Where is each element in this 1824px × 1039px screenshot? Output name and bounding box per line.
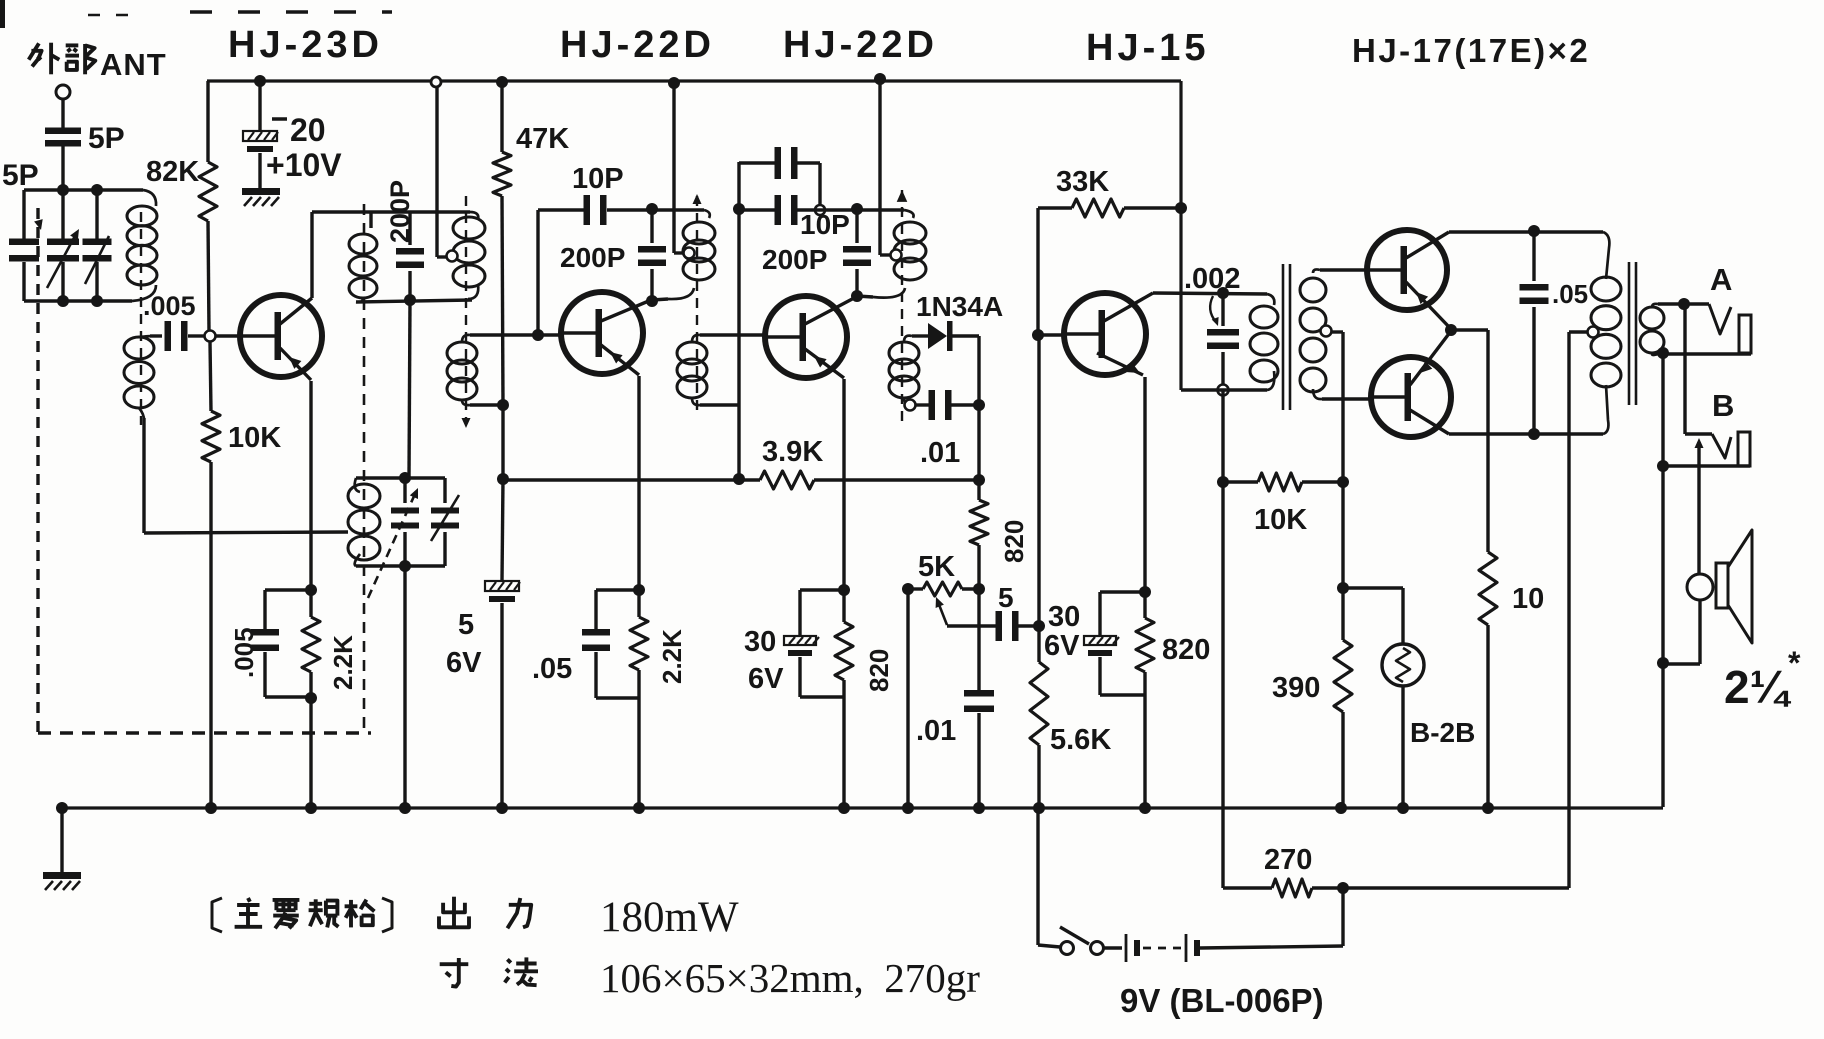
IF1 tap feed [447, 251, 458, 262]
wire IF1 sec bottom [470, 403, 503, 406]
svg-text:30: 30 [1048, 601, 1080, 633]
capacitor 30uF 6V (AF) [1098, 592, 1101, 636]
wire battery to CT [1343, 886, 1569, 889]
battery dashed link [1143, 947, 1181, 950]
driver transformer core [1282, 264, 1285, 410]
node bus 47K [496, 76, 508, 88]
wire to IF2 primary top [652, 208, 704, 211]
output transformer secondary [1640, 307, 1664, 329]
svg-text:6V: 6V [1044, 630, 1080, 662]
node 200P top (Q2) [646, 203, 658, 215]
jack B sleeve [1738, 432, 1750, 466]
wire to diode [912, 334, 928, 337]
svg-text:.05: .05 [532, 653, 572, 685]
wire switch to cell [1104, 946, 1122, 949]
wire IF3 top entry [857, 208, 904, 211]
svg-text:.002: .002 [1184, 263, 1240, 295]
antenna coil primary [127, 206, 157, 226]
capacitor .005 bypass [263, 590, 266, 629]
capacitor .05 bypass [594, 590, 597, 629]
dashed core IF2 [696, 196, 698, 412]
wire sec bottom to Q6 base [1322, 397, 1372, 400]
wire IF1 sec top to Q2 base [470, 333, 561, 336]
node bus electrolytic [254, 75, 266, 87]
wire 270 corner [1221, 885, 1224, 888]
wire RC2 bottom [596, 696, 639, 699]
wire IF2 sec top to Q3 base [700, 333, 765, 336]
node bus x908 [902, 802, 914, 814]
node tank top [399, 472, 411, 484]
node Q1 RC top [305, 584, 317, 596]
svg-text:5P: 5P [88, 122, 125, 155]
svg-text:5: 5 [998, 582, 1014, 613]
stray dashes top [190, 10, 392, 13]
output transformer primary [1591, 277, 1621, 301]
ground (electrolytic) [242, 188, 280, 195]
svg-text:5K: 5K [918, 551, 955, 583]
node jack B branch [1657, 460, 1669, 472]
transistor Q5 (HJ-17 upper) [1367, 230, 1447, 310]
Q6 emitter lead [1410, 331, 1451, 385]
jack A contact [1709, 304, 1731, 334]
transistor Q4 (HJ-15) [1064, 293, 1146, 375]
wire 33K left leg [1036, 208, 1039, 335]
wire gang top [24, 188, 143, 191]
output transformer core [1628, 262, 1631, 405]
wire tank top line [356, 476, 445, 479]
wire Q5 collector line [1449, 230, 1603, 233]
svg-text:820: 820 [999, 520, 1029, 563]
wire RC bottom [265, 695, 311, 698]
capacitor gang C2 (variable) [47, 239, 79, 246]
wire lamp lead [1343, 586, 1403, 589]
wire 82K to base [208, 221, 209, 331]
node AGC start [497, 473, 509, 485]
node 10P junction [532, 329, 544, 341]
node x739 AGC [733, 473, 745, 485]
wire Q2 RC to bus [637, 698, 640, 808]
resistor 270 [1272, 879, 1312, 897]
svg-text:A: A [1710, 262, 1732, 297]
IF2 secondary [677, 342, 707, 364]
wire tank to bus [403, 566, 406, 808]
resistor 390 [1341, 588, 1344, 640]
wire antenna down [61, 99, 64, 128]
wire RC2 top [596, 588, 639, 591]
capacitor 5uF 6V electrolytic [485, 581, 519, 591]
node 5K right [973, 583, 985, 595]
wire collector to IF2 bottom [652, 299, 668, 300]
resistor 10 [1479, 552, 1497, 625]
node bus x62 [56, 802, 68, 814]
dashed core IF3 [901, 190, 903, 424]
spec 出力 [452, 897, 456, 928]
Q5 emitter lead [1406, 282, 1451, 329]
svg-text:HJ-23D: HJ-23D [228, 24, 383, 66]
node jack A [1678, 298, 1690, 310]
svg-text:+10V: +10V [266, 147, 342, 183]
spec 寸法 [440, 962, 469, 966]
node 47K line [497, 399, 509, 411]
wire 820 to AGC node [977, 545, 980, 589]
svg-text:200P: 200P [385, 180, 415, 243]
wire 10ohm riser [1486, 330, 1489, 552]
wire RC4 bottom [1100, 693, 1145, 696]
battery cell 1 [1125, 934, 1128, 962]
svg-text:5: 5 [458, 609, 474, 641]
node bus IF2 feed [668, 77, 680, 89]
wire osc/IF1 bottom line [356, 300, 472, 302]
svg-text:5P: 5P [2, 159, 39, 192]
wire supply to primary bottom [1181, 388, 1267, 391]
svg-text:.005: .005 [229, 627, 259, 678]
node bus x1039 [1033, 802, 1045, 814]
oscillator coil primary winding [349, 234, 377, 254]
node lamp branch [1337, 582, 1349, 594]
wire lamp to bus [1401, 685, 1404, 808]
node 10K left [1217, 476, 1229, 488]
node gang top a [57, 184, 69, 196]
svg-text:6V: 6V [748, 663, 784, 695]
svg-text:33K: 33K [1056, 166, 1109, 198]
svg-text:9V (BL-006P): 9V (BL-006P) [1120, 982, 1324, 1019]
wire 33K right [1124, 206, 1181, 209]
svg-text:2.2K: 2.2K [657, 629, 687, 684]
wire speaker to jack B [1697, 442, 1700, 574]
wire Q1 emitter drop [309, 381, 312, 590]
svg-text:82K: 82K [146, 156, 199, 188]
wire jack A sleeve return [1663, 352, 1751, 355]
svg-text:106×65×32mm, 270gr: 106×65×32mm, 270gr [600, 955, 980, 1001]
node Q4 RC top [1139, 586, 1151, 598]
svg-text:270: 270 [1264, 844, 1312, 876]
jack B contact [1712, 434, 1731, 458]
wire emitter-osc link [144, 532, 348, 533]
node Q2 collector [646, 295, 658, 307]
node gang bottom a [57, 295, 69, 307]
wire RC3 bottom [800, 695, 844, 698]
ground (main) [43, 872, 81, 879]
Q3 emitter lead [805, 349, 844, 378]
wire antenna to gang [61, 146, 64, 190]
IF3 tap feed [891, 250, 902, 261]
node Q3 collector [851, 290, 863, 302]
Q1 emitter lead [280, 348, 311, 380]
svg-text:HJ-22D: HJ-22D [783, 24, 938, 66]
wire neutralizing riser [536, 210, 539, 330]
svg-text:820: 820 [1162, 634, 1210, 666]
node .002 top [1217, 287, 1229, 299]
pilot lamp B-2B [1382, 644, 1424, 686]
wire osc coil entry [369, 212, 372, 228]
wire jack B tip feed [1683, 305, 1686, 434]
svg-text:390: 390 [1272, 672, 1320, 704]
node bus x1488 [1482, 802, 1494, 814]
resistor 2.2K (Q2) [637, 590, 640, 617]
dashed boundary bottom [38, 731, 371, 734]
transistor Q3 (HJ-22D) [765, 296, 847, 378]
node bus x1403 [1397, 802, 1409, 814]
speaker cone [1728, 530, 1752, 643]
capacitor .01 (AF) [964, 690, 994, 697]
resistor 2.2K (Q1) [309, 590, 312, 617]
wire to ground [258, 153, 261, 188]
spec bracket open [212, 898, 222, 932]
wire cap to base node [188, 334, 204, 337]
speaker driver [1716, 563, 1728, 608]
oscillator tank coil [348, 484, 380, 508]
svg-text:200P: 200P [560, 242, 625, 273]
wire 47K down [502, 196, 503, 405]
wire sec top to jack A [1658, 302, 1709, 305]
svg-text:5.6K: 5.6K [1050, 724, 1111, 756]
wire .01 to AGC bus [951, 403, 979, 406]
node AGC 820 [973, 474, 985, 486]
resistor 3.9K [760, 471, 814, 489]
tank trimmer capacitor [443, 478, 446, 503]
svg-text:HJ-15: HJ-15 [1086, 27, 1210, 69]
svg-text:200P: 200P [762, 244, 827, 275]
svg-text:1N34A: 1N34A [916, 291, 1003, 322]
wire diode out [952, 334, 979, 337]
wire RC3 top [800, 588, 844, 591]
wire Q6 collector line [1449, 432, 1603, 435]
dashed core IF1 [465, 196, 467, 420]
wire tank bottom line [356, 564, 445, 567]
node bias [1337, 476, 1349, 488]
svg-text:.01: .01 [920, 437, 960, 469]
node bus x979 [973, 802, 985, 814]
IF1 secondary [447, 342, 477, 364]
wire .01 AF to bus [977, 713, 980, 808]
wire 5.6K riser [1037, 335, 1040, 626]
capacitor 5uF coupling [996, 611, 1003, 641]
capacitor 200P (Q2 tank) [650, 210, 653, 243]
svg-text:180mW: 180mW [600, 894, 739, 941]
driver transformer primary [1250, 306, 1278, 328]
capacitor gang C3 (trimmer) [83, 239, 112, 246]
Q2 emitter lead [601, 345, 639, 375]
transistor Q1 (HJ-23D) [240, 295, 322, 377]
wire det bottom to .01 [916, 403, 929, 406]
wire Q4 collector line [1153, 293, 1267, 294]
wire AGC line [503, 478, 760, 481]
wire secondary top to cap [150, 334, 162, 337]
capacitor 200P (IF1 tank) [408, 212, 411, 245]
Q3 collector lead [805, 297, 856, 324]
wire bias down [1341, 482, 1344, 588]
wire Q1 collector top line [312, 210, 470, 213]
wire battery neg [1200, 946, 1343, 948]
wire 10K right [1302, 480, 1343, 483]
svg-text:10K: 10K [228, 422, 281, 454]
battery cell 2 [1185, 934, 1188, 962]
wire tank riser [409, 300, 410, 478]
driver sec center tap [1321, 326, 1332, 337]
wire 10K to bus [209, 462, 212, 808]
tank tuning arrow [368, 494, 415, 598]
resistor 820 (AF) [1143, 592, 1146, 618]
node Q1 RC bottom [305, 692, 317, 704]
IF2 tap feed [684, 248, 695, 259]
label 外部ANT [29, 43, 39, 59]
node bus x502 [496, 802, 508, 814]
node bus IF3 feed [874, 73, 886, 85]
tank variable capacitor [403, 478, 406, 503]
capacitor 200P (Q3 tank) [855, 210, 858, 243]
node tank bottom [399, 560, 411, 572]
node 5K left [902, 583, 914, 595]
wire sec bottom link [1658, 353, 1663, 354]
node bus x211 [205, 802, 217, 814]
wire AGC right [814, 478, 979, 481]
wire 47K from bus [500, 82, 503, 152]
wire 10K lead [1223, 480, 1258, 483]
capacitor .002 [1221, 293, 1224, 326]
wire cap to base line [1018, 624, 1039, 627]
resistor 82K [199, 162, 217, 221]
driver transformer secondary [1300, 278, 1326, 302]
wire RC4 top [1100, 590, 1145, 593]
wire base lead Q1 [216, 334, 241, 337]
wire Q2 emitter drop [637, 376, 640, 590]
svg-text:2¼: 2¼ [1724, 661, 1792, 713]
dashed core antenna coil [140, 212, 142, 425]
wire 10ohm to bus [1486, 625, 1489, 808]
resistor 5.6K [1037, 626, 1040, 662]
wire supply x1223 down [1221, 390, 1224, 885]
capacitor 30uF 6V electrolytic [798, 590, 801, 636]
svg-text:820: 820 [864, 649, 894, 692]
wire gang mid [61, 190, 64, 239]
node .05 bottom [1528, 428, 1540, 440]
Q6 collector lead [1410, 410, 1449, 434]
node emitters [1445, 324, 1457, 336]
node bus x844 [838, 802, 850, 814]
svg-text:B: B [1712, 388, 1734, 423]
wire to switch [1038, 945, 1060, 947]
node 33K supply [1175, 202, 1187, 214]
node x739 top line [733, 203, 745, 215]
OPT center tap [1588, 327, 1599, 338]
svg-text:3.9K: 3.9K [762, 436, 823, 468]
pot wiper arrow [938, 602, 947, 625]
wire IF2 top line [538, 208, 584, 211]
svg-text:HJ-17(17E)×2: HJ-17(17E)×2 [1352, 32, 1590, 69]
wire battery neg riser [1341, 888, 1344, 944]
node sec bottom [1657, 347, 1669, 359]
node detector bottom [905, 400, 916, 411]
ganged tuning dashed link [36, 208, 39, 733]
ring 10P lower join [815, 205, 825, 215]
node bus x311 [305, 802, 317, 814]
wire 820 AGC top [977, 405, 980, 500]
wire ground lead [60, 808, 63, 872]
capacitor .01 (detector) [929, 390, 936, 420]
transistor Q2 (HJ-22D) [561, 292, 643, 374]
node .05 top [1528, 225, 1540, 237]
node bus x1341 [1335, 802, 1347, 814]
svg-text:10P: 10P [572, 163, 624, 195]
wire battery link [1567, 332, 1570, 888]
svg-text:HJ-22D: HJ-22D [560, 24, 715, 66]
jack A sleeve [1739, 315, 1751, 353]
resistor 33K [1072, 199, 1124, 217]
capacitor .05 (output) [1532, 231, 1535, 281]
wire collector to IF3 bottom [857, 296, 873, 297]
wire Q4 RC to bus [1143, 695, 1146, 808]
node Q3 RC top [838, 584, 850, 596]
svg-text:10: 10 [1512, 583, 1544, 615]
node gang bottom b [91, 295, 103, 307]
wire Q3 RC to bus [842, 697, 845, 808]
Q2 collector lead [601, 300, 651, 321]
antenna terminal [56, 85, 70, 99]
node battery junction [1337, 882, 1349, 894]
resistor 47K [493, 152, 511, 196]
switch [1061, 942, 1074, 955]
wire gang bottom [24, 299, 132, 302]
IF3 transformer primary [894, 222, 926, 244]
wire AGC drop [502, 479, 503, 581]
IF2 transformer primary [683, 222, 715, 244]
IF3 secondary (detector) [889, 342, 919, 364]
top-left scan mark [0, 0, 5, 28]
svg-text:47K: 47K [516, 123, 569, 155]
wire 82K from bus [206, 81, 209, 162]
transistor Q6 (HJ-17 lower) [1371, 357, 1451, 437]
node .01 det [973, 399, 985, 411]
wire base node to 10K [210, 342, 211, 411]
resistor 10K (bias) [1258, 473, 1302, 491]
svg-text:30: 30 [744, 626, 776, 658]
wire Q1 RC to bus [309, 703, 312, 808]
capacitor 10P lower (Q3) [739, 208, 775, 211]
wire secondary bottom drop [142, 418, 145, 533]
wire neutral/AGC riser x739 [737, 162, 740, 479]
antenna coil secondary [124, 337, 154, 359]
svg-text:10P: 10P [800, 209, 850, 240]
capacitor 20uF 10V electrolytic [243, 131, 277, 141]
node 200P top (Q3) [851, 203, 863, 215]
wire top supply bus [207, 79, 1181, 82]
Q4 collector lead [1104, 293, 1153, 321]
svg-text:10K: 10K [1254, 504, 1307, 536]
node bus x639 [633, 802, 645, 814]
node Q4 base [1032, 329, 1044, 341]
node gang top b [91, 184, 103, 196]
wire emitters out [1451, 328, 1488, 331]
Q4 emitter lead [1097, 353, 1143, 375]
svg-text:ANT: ANT [100, 47, 167, 82]
svg-text:6V: 6V [446, 647, 482, 679]
spec bracket close [382, 898, 392, 932]
svg-text:.005: .005 [143, 291, 196, 321]
wire speaker bus riser [1661, 353, 1664, 807]
wire Q4 base lead [1038, 333, 1065, 336]
wire speaker return [1698, 600, 1701, 664]
node Q1 base [205, 331, 216, 342]
volume pot 5K [923, 582, 962, 596]
wire 5uF to bus [500, 603, 503, 808]
Q5 collector lead [1406, 232, 1449, 258]
node .002 bottom [1218, 385, 1229, 396]
resistor 820 (Q3) [842, 590, 845, 622]
IF1 transformer primary [453, 217, 485, 239]
wire 10P to 200P [607, 208, 652, 211]
capacitor 10P (Q2) [584, 195, 591, 225]
svg-text:20: 20 [290, 112, 326, 148]
